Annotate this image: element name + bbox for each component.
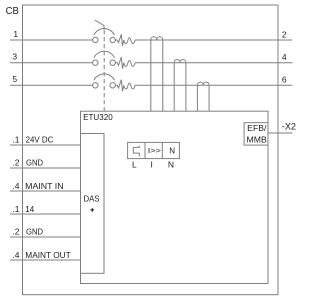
breaker pole 1 magnetic coil loops [124, 38, 135, 44]
svg-text:.4: .4 [12, 181, 19, 191]
enclosure outer box [23, 5, 279, 295]
breaker pole 2 contacts [93, 51, 116, 65]
svg-text:MMB: MMB [247, 135, 268, 145]
svg-text:N: N [168, 159, 174, 169]
breaker pole 3 contacts [93, 74, 116, 88]
svg-text:N: N [169, 146, 175, 155]
breaker pole 2 magnetic coil loops [124, 60, 135, 66]
LIN cell divider 1 [144, 142, 146, 158]
svg-text:.4: .4 [12, 250, 19, 260]
svg-text:.2: .2 [12, 158, 19, 168]
wire L1 right segment [135, 39, 292, 41]
svg-text:L: L [132, 159, 137, 169]
ETU320 box [81, 111, 269, 283]
svg-text:GND: GND [26, 158, 43, 168]
breaker pole 3 magnetic coil loops [124, 83, 135, 89]
svg-text:24V DC: 24V DC [26, 135, 54, 145]
wire GND1 [10, 167, 81, 169]
svg-text:4: 4 [282, 52, 287, 62]
svg-text:DAS: DAS [84, 194, 100, 204]
svg-text:6: 6 [282, 75, 287, 85]
CT tap L3 [197, 82, 209, 111]
breaker pole 2 thermal zigzag [115, 57, 123, 69]
trip unit LIN box [128, 142, 180, 158]
breaker actuator linkage [95, 20, 104, 30]
svg-text:I: I [151, 159, 153, 169]
wire MAINT IN [10, 190, 81, 192]
breaker pole 1 contacts [93, 29, 116, 43]
L-characteristic step symbol [133, 146, 139, 157]
svg-text:14: 14 [25, 204, 34, 214]
svg-text:2: 2 [282, 29, 287, 39]
svg-text:GND: GND [26, 227, 43, 237]
svg-text:3: 3 [12, 52, 17, 62]
wire L3 left segment [10, 84, 93, 86]
wire L3 right segment [135, 84, 292, 86]
svg-text:MAINT OUT: MAINT OUT [25, 250, 70, 260]
svg-text:MAINT IN: MAINT IN [25, 181, 63, 191]
wire MAINT OUT [10, 259, 81, 261]
EFB/MMB box [244, 123, 268, 145]
svg-text:I>>: I>> [148, 146, 162, 155]
svg-text:.1: .1 [12, 204, 19, 214]
wire 14 [10, 213, 81, 215]
svg-text:EFB/: EFB/ [247, 123, 267, 133]
LIN cell divider 2 [161, 142, 163, 158]
trip linkage dashed line [103, 30, 105, 111]
wire L2 right segment [135, 62, 292, 64]
wire L2 left segment [10, 62, 93, 64]
wire L1 left segment [10, 39, 93, 41]
svg-text:5: 5 [12, 74, 17, 84]
label plus [90, 208, 94, 212]
wire GND2 [10, 236, 81, 238]
breaker pole 3 thermal zigzag [115, 80, 123, 92]
DAS box [81, 134, 105, 274]
svg-text:.2: .2 [12, 227, 19, 237]
svg-text:CB: CB [6, 6, 19, 17]
wire to X2 [268, 132, 292, 134]
svg-text:ETU320: ETU320 [83, 112, 113, 122]
breaker pole 1 thermal zigzag [115, 34, 123, 46]
CT tap L2 [174, 59, 186, 111]
CT tap L1 [151, 37, 163, 111]
svg-text:-X2: -X2 [282, 122, 296, 133]
svg-text:.1: .1 [12, 135, 19, 145]
svg-text:1: 1 [13, 29, 18, 39]
wire 24V DC [10, 144, 81, 146]
